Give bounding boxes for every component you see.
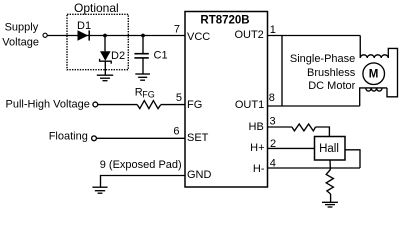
svg-text:SET: SET bbox=[187, 132, 209, 144]
resistor R3 (hall bias) bbox=[326, 170, 333, 195]
svg-text:8: 8 bbox=[269, 92, 275, 104]
wire H+ to Hall bbox=[268, 147, 315, 149]
svg-text:H-: H- bbox=[253, 163, 265, 175]
svg-text:Floating: Floating bbox=[49, 131, 88, 143]
wire resistor to ground bbox=[330, 194, 332, 202]
junction node A bbox=[103, 34, 107, 38]
svg-text:9 (Exposed Pad): 9 (Exposed Pad) bbox=[100, 159, 182, 171]
svg-text:OUT1: OUT1 bbox=[235, 99, 264, 111]
svg-text:Brushless: Brushless bbox=[307, 67, 356, 79]
wire HB to resistor bbox=[268, 126, 292, 128]
wire supply rail to VCC bbox=[47, 35, 185, 37]
wire OUT1 / motor box bottom bbox=[268, 105, 360, 107]
resistor RFG bbox=[135, 87, 161, 109]
svg-text:Single-Phase: Single-Phase bbox=[290, 53, 355, 65]
wire D2 branch bbox=[104, 36, 106, 52]
wire GND pin bbox=[101, 176, 186, 188]
svg-text:Hall: Hall bbox=[319, 143, 339, 155]
ground under C1 bbox=[135, 74, 150, 80]
motor winding top coil bbox=[360, 36, 388, 59]
svg-text:OUT2: OUT2 bbox=[234, 29, 263, 41]
svg-text:Supply: Supply bbox=[5, 22, 39, 34]
svg-text:FG: FG bbox=[187, 99, 202, 111]
svg-text:RT8720B: RT8720B bbox=[200, 15, 249, 27]
optional dashed box bbox=[67, 14, 128, 69]
wire OUT2 / motor box top bbox=[268, 35, 361, 37]
svg-text:5: 5 bbox=[176, 92, 182, 104]
svg-text:M: M bbox=[369, 69, 379, 81]
svg-text:6: 6 bbox=[173, 126, 179, 138]
svg-text:1: 1 bbox=[270, 24, 276, 36]
resistor R2 (HB) bbox=[292, 124, 316, 131]
svg-text:GND: GND bbox=[187, 169, 212, 181]
wire pull-high to resistor bbox=[98, 104, 137, 106]
svg-text:D1: D1 bbox=[77, 20, 91, 32]
svg-text:D2: D2 bbox=[111, 50, 125, 62]
motor M1 bbox=[363, 63, 385, 85]
svg-text:DC Motor: DC Motor bbox=[308, 80, 355, 92]
wire Hall bottom bbox=[329, 160, 331, 170]
svg-text:FG: FG bbox=[142, 90, 155, 100]
ground pin 9 bbox=[92, 187, 107, 193]
terminal Floating bbox=[92, 136, 97, 141]
wire top coil to bracket bbox=[387, 48, 398, 96]
svg-text:3: 3 bbox=[270, 116, 276, 128]
Hall sensor U2 bbox=[315, 137, 346, 161]
svg-text:C1: C1 bbox=[154, 50, 168, 62]
svg-text:HB: HB bbox=[249, 121, 264, 133]
node Supply Voltage label bbox=[2, 22, 39, 49]
svg-text:Optional: Optional bbox=[74, 1, 119, 15]
motor box left edge bbox=[281, 36, 283, 107]
svg-text:H+: H+ bbox=[250, 142, 264, 154]
wire resistor to Hall top bbox=[316, 127, 330, 137]
wire H- rail bbox=[268, 167, 361, 169]
motor label Single-Phase Brushless DC Motor bbox=[290, 53, 356, 92]
svg-text:Pull-High Voltage: Pull-High Voltage bbox=[6, 98, 90, 110]
ground hall bbox=[322, 202, 338, 207]
zener diode D2 bbox=[100, 50, 125, 75]
svg-text:Voltage: Voltage bbox=[2, 37, 39, 49]
wire Hall right to H- bbox=[345, 150, 360, 168]
wire floating to SET pin bbox=[97, 137, 186, 139]
terminal Pull-High bbox=[93, 102, 98, 107]
terminal Supply Voltage bbox=[43, 33, 47, 37]
ground under D2 bbox=[97, 75, 113, 81]
svg-text:7: 7 bbox=[174, 24, 180, 36]
svg-text:VCC: VCC bbox=[187, 31, 210, 43]
motor winding bottom coil bbox=[360, 88, 387, 106]
wire resistor to FG pin bbox=[161, 104, 185, 106]
capacitor C1 bbox=[134, 36, 167, 75]
IC U1 RT8720B bbox=[185, 12, 268, 188]
diode D1 bbox=[77, 20, 91, 41]
junction node B (VCC/C1) bbox=[141, 34, 145, 38]
